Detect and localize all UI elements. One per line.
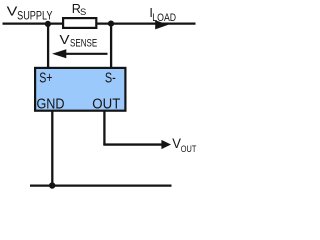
wire: top rail right segment (Rs to load) <box>97 23 196 25</box>
svg-text:GND: GND <box>37 95 65 112</box>
resistor R_S <box>63 18 96 28</box>
arrowhead V_OUT <box>161 140 171 149</box>
node I_LOAD label <box>149 6 176 24</box>
svg-text:S+: S+ <box>39 70 52 87</box>
resistor R_S value label <box>72 2 87 17</box>
junction dot at S+ tap <box>45 21 51 27</box>
node V_OUT label <box>172 136 196 154</box>
wire: OUT horizontal to Vout arrow <box>103 143 163 145</box>
wire: S- sense wire (vertical) <box>110 24 112 68</box>
node VSUPPLY label <box>7 3 53 22</box>
wire: V_SENSE arrow shaft <box>63 53 108 55</box>
svg-text:LOAD: LOAD <box>152 12 176 24</box>
wire: OUT pin down <box>103 110 105 145</box>
svg-text:S-: S- <box>105 70 116 87</box>
wire: top rail left segment (VSUPPLY to Rs) <box>3 23 64 25</box>
junction dot on ground rail <box>49 182 55 188</box>
svg-text:S: S <box>80 6 86 17</box>
svg-text:V: V <box>60 32 70 47</box>
op-amp U1 current-sense amplifier body <box>35 68 125 111</box>
svg-text:SENSE: SENSE <box>70 37 97 49</box>
arrowhead I_LOAD <box>155 20 168 29</box>
wire: ground rail <box>30 185 172 187</box>
wire: GND pin to ground rail <box>51 110 53 186</box>
svg-text:OUT: OUT <box>181 144 197 154</box>
svg-text:V: V <box>7 3 18 18</box>
svg-text:OUT: OUT <box>92 95 120 112</box>
node V_SENSE label <box>60 32 98 49</box>
svg-text:SUPPLY: SUPPLY <box>17 10 53 23</box>
arrowhead V_SENSE (points left) <box>52 49 66 58</box>
wire: S+ sense wire (vertical) <box>47 24 49 68</box>
junction dot at S- tap <box>108 21 114 27</box>
